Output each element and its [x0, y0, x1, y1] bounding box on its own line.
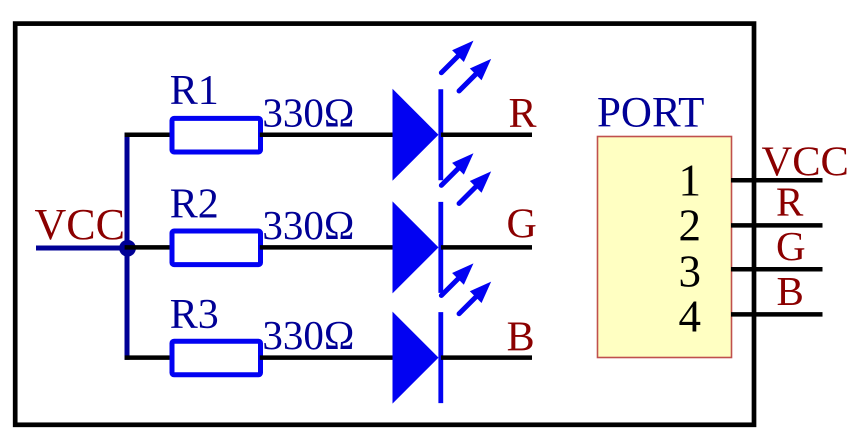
LED D2 triangle	[393, 201, 439, 293]
svg-text:R3: R3	[170, 292, 219, 338]
pin 2 wire	[731, 223, 823, 228]
svg-text:330Ω: 330Ω	[262, 89, 354, 135]
resistor R3	[172, 341, 261, 375]
schematic border frame	[15, 24, 754, 425]
wire LED1 to node R	[441, 133, 532, 138]
LED D3 arrow 3	[453, 276, 497, 320]
wire bus to R3	[125, 355, 172, 360]
wire R2 to LED2	[260, 245, 396, 250]
resistor R1	[172, 118, 261, 152]
LED D1 arrow 2	[453, 53, 497, 97]
LED D3 triangle	[393, 312, 439, 404]
pin 1 wire	[731, 178, 823, 183]
svg-text:R2: R2	[170, 181, 219, 227]
LED D2 arrow 2	[453, 166, 497, 210]
wire R3 to LED3	[260, 355, 396, 360]
svg-text:VCC: VCC	[762, 139, 849, 186]
wire R1 to LED1	[260, 133, 396, 138]
svg-text:R: R	[508, 91, 536, 137]
resistor R2	[172, 231, 261, 265]
junction dot	[119, 240, 136, 257]
svg-text:G: G	[506, 202, 536, 248]
LED D1 arrow 1	[435, 35, 479, 79]
wire bus to R2	[125, 245, 172, 250]
connector J1 body	[598, 137, 732, 358]
LED D1 cathode bar	[438, 89, 443, 180]
LED D1 triangle	[393, 89, 439, 181]
LED D3 cathode bar	[438, 312, 443, 403]
wire VCC stub	[36, 246, 127, 251]
svg-text:3: 3	[679, 246, 702, 296]
svg-text:330Ω: 330Ω	[262, 202, 354, 248]
wire bus to R1	[125, 133, 172, 138]
svg-text:G: G	[776, 223, 806, 269]
svg-text:2: 2	[679, 201, 702, 251]
svg-text:R1: R1	[170, 68, 219, 114]
svg-text:VCC: VCC	[35, 200, 125, 249]
svg-text:R: R	[776, 179, 804, 225]
LED D2 arrow 1	[435, 147, 479, 191]
pin 4 wire	[731, 312, 823, 317]
svg-text:330Ω: 330Ω	[262, 312, 354, 358]
pin 3 wire	[731, 267, 823, 272]
wire LED3 to node B	[441, 355, 532, 360]
svg-text:1: 1	[679, 155, 702, 205]
LED D2 cathode bar	[438, 202, 443, 293]
svg-text:PORT: PORT	[597, 90, 704, 137]
LED D3 arrow 1	[435, 258, 479, 302]
wire LED2 to node G	[441, 245, 532, 250]
svg-text:B: B	[507, 314, 535, 360]
svg-text:B: B	[777, 268, 804, 314]
wire VCC vertical bus	[125, 133, 130, 360]
svg-text:4: 4	[679, 292, 702, 342]
